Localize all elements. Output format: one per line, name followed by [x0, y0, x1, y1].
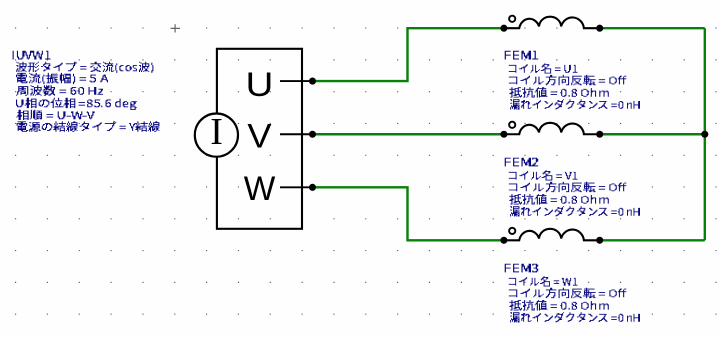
text コイル名 = V1 [509, 170, 578, 180]
wire FEM1 output [600, 27, 705, 29]
three-phase current source IUVW1: outline box [217, 49, 302, 229]
text 抵抗値 = 0.8 Ohm [509, 87, 608, 97]
junction dot pin V [309, 131, 316, 138]
polarity dot circle coil FEM3 [509, 228, 515, 234]
current source letter I [210, 111, 223, 153]
junction dot coil FEM2 left terminal [500, 131, 507, 138]
text コイル方向反転 = Off [509, 288, 627, 298]
svg-text:V: V [247, 117, 272, 155]
text FEM2 [505, 158, 538, 167]
junction dot coil FEM3 left terminal [500, 237, 507, 244]
text 抵抗値 = 0.8 Ohm [509, 300, 608, 310]
text 漏れインダクタンス = 0 nH [510, 206, 640, 216]
pin lead V [280, 133, 311, 135]
text 漏れインダクタンス = 0 nH [510, 99, 640, 109]
text 漏れインダクタンス = 0 nH [510, 312, 640, 322]
pin label U [246, 65, 274, 104]
junction dot pin U [309, 78, 316, 85]
text コイル方向反転 = Off [509, 75, 627, 85]
svg-text:W: W [244, 170, 276, 209]
text 相順 = U-W-V [16, 110, 94, 120]
svg-text:I: I [210, 111, 223, 153]
junction dot coil FEM1 left terminal [500, 25, 507, 32]
text コイル名 = U1 [509, 63, 578, 73]
pin label W [244, 170, 276, 209]
coil FEM3 (inductor winding) [504, 229, 600, 240]
current source circle symbol [195, 114, 238, 157]
right bus wire (neutral) [704, 28, 706, 240]
junction dot coil FEM2 right terminal [596, 131, 603, 138]
pin lead W [280, 186, 311, 188]
pin label V [247, 117, 272, 155]
text 周波数 = 60 Hz [16, 85, 103, 95]
text FEM3 [505, 264, 538, 273]
text コイル名 = W1 [509, 276, 578, 286]
text 抵抗値 = 0.8 Ohm [509, 194, 608, 204]
wire U phase [313, 28, 504, 81]
coil FEM2 (inductor winding) [504, 123, 600, 134]
polarity dot circle coil FEM1 [509, 16, 515, 22]
text U相の位相 = 85.6 deg [16, 98, 137, 110]
junction dot coil FEM1 right terminal [596, 25, 603, 32]
wire FEM2 output [600, 133, 705, 135]
text コイル方向反転 = Off [509, 182, 627, 192]
wire FEM3 output [600, 239, 705, 241]
text IUVW1 [13, 51, 51, 60]
junction dot coil FEM3 right terminal [596, 237, 603, 244]
text FEM1 [505, 51, 538, 60]
text 電流(振幅) = 5 A [16, 73, 108, 84]
polarity dot circle coil FEM2 [509, 122, 515, 128]
pin lead U [280, 80, 311, 82]
text 電源の結線タイプ = Y結線 [17, 121, 160, 131]
coil FEM1 (inductor winding) [504, 17, 600, 28]
svg-text:U: U [246, 65, 274, 104]
junction dot pin W [309, 184, 316, 191]
origin crosshair marker [171, 24, 181, 32]
wire V phase [313, 133, 504, 135]
text 波形タイプ = 交流(cos波) [16, 62, 153, 73]
wire W phase [313, 187, 504, 240]
junction dot right bus at V node [701, 131, 708, 138]
